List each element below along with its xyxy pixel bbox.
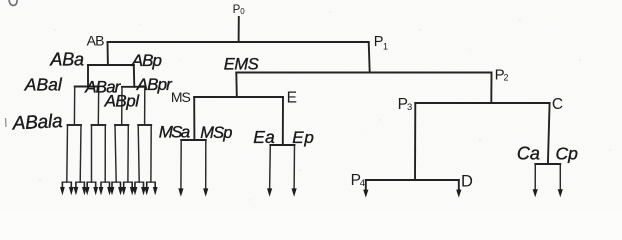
svg-text:ABala: ABala: [11, 111, 63, 135]
svg-text:1: 1: [383, 42, 388, 52]
svg-text:AB: AB: [87, 33, 105, 49]
svg-text:C: C: [552, 96, 563, 113]
svg-text:MS: MS: [171, 89, 191, 105]
svg-text:ABa: ABa: [49, 49, 84, 69]
svg-text:2: 2: [504, 73, 509, 83]
svg-text:Ca: Ca: [517, 143, 540, 163]
svg-text:4: 4: [360, 178, 365, 189]
svg-text:ABp: ABp: [131, 51, 162, 70]
svg-text:MSa: MSa: [159, 123, 190, 142]
svg-text:E: E: [287, 89, 297, 106]
svg-text:0: 0: [240, 7, 245, 16]
svg-text:ABpr: ABpr: [136, 75, 173, 94]
svg-text:ABal: ABal: [24, 75, 63, 95]
svg-text:EMS: EMS: [224, 55, 259, 73]
svg-text:Ea: Ea: [253, 127, 275, 147]
svg-text:3: 3: [407, 102, 412, 113]
svg-text:D: D: [461, 172, 473, 190]
svg-text:Ep: Ep: [292, 128, 314, 147]
svg-text:Cp: Cp: [556, 144, 579, 164]
svg-text:ABpl: ABpl: [104, 92, 141, 111]
svg-text:MSp: MSp: [200, 124, 232, 142]
